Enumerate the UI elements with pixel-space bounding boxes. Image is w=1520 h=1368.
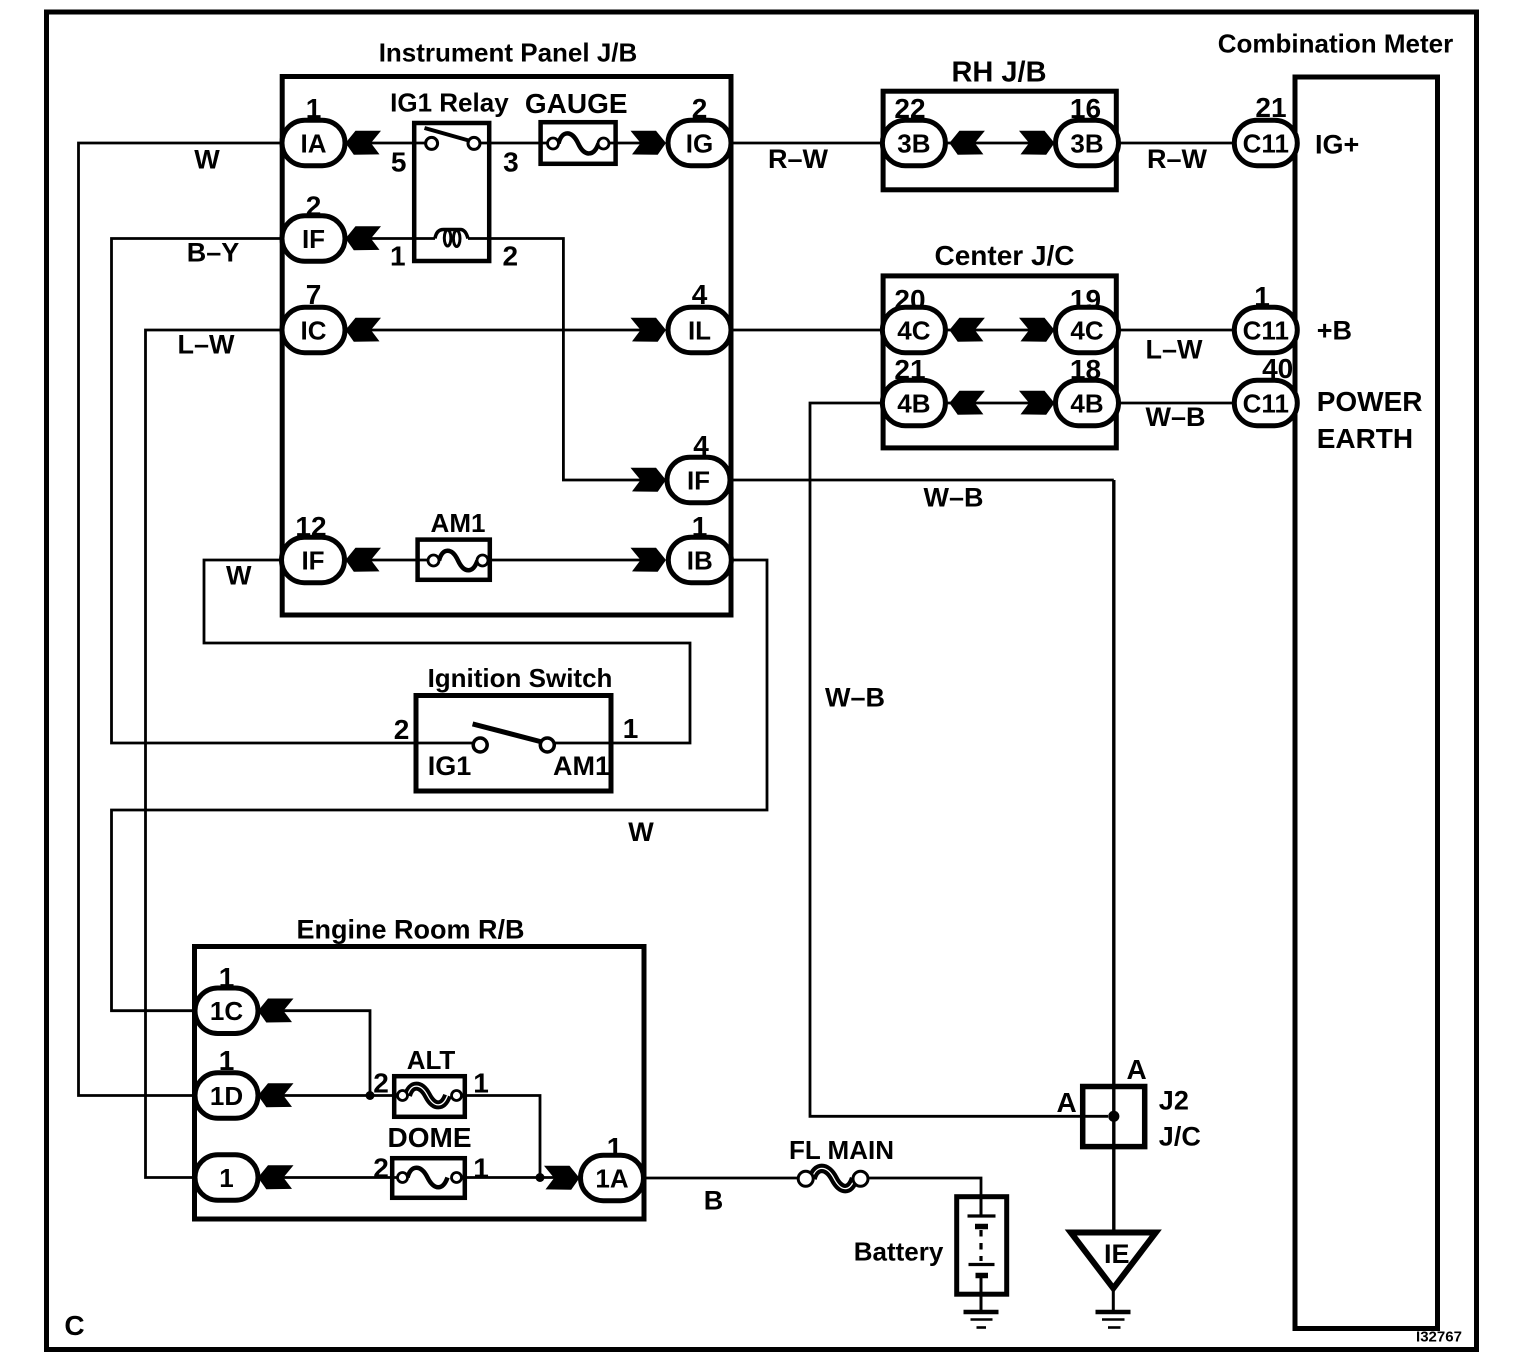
wire W from IF(12) to Ignition Switch terminal 1 AM1 — [204, 560, 690, 743]
junction block box Instrument Panel J/B — [282, 77, 731, 616]
svg-text:W–B: W–B — [1146, 402, 1206, 432]
svg-text:1C: 1C — [210, 996, 243, 1026]
splice arrow at IG — [631, 131, 667, 155]
connector 4B pin 21 — [882, 380, 945, 426]
svg-text:B–Y: B–Y — [187, 238, 240, 268]
svg-text:40: 40 — [1262, 353, 1293, 384]
svg-text:1: 1 — [390, 241, 406, 272]
svg-text:C11: C11 — [1243, 388, 1289, 418]
svg-text:4B: 4B — [1070, 388, 1103, 418]
svg-text:IF: IF — [301, 545, 324, 575]
svg-text:2: 2 — [394, 714, 410, 745]
splice arrow at IB — [631, 548, 667, 572]
relay contact circle pin 3 — [468, 137, 480, 149]
wire relay coil pin 2 to IF(4) — [468, 239, 662, 481]
splice arrow at 1D — [258, 1083, 294, 1107]
wire ALT fuse pin 1 down to 1A node — [461, 1096, 540, 1178]
svg-text:4C: 4C — [897, 315, 930, 345]
svg-text:1: 1 — [692, 511, 708, 542]
svg-text:IC: IC — [301, 315, 327, 345]
ignition switch contact AM1 circle — [540, 738, 554, 752]
svg-text:Engine Room R/B: Engine Room R/B — [297, 915, 525, 945]
wire GAUGE fuse to IG — [608, 142, 663, 145]
svg-text:1: 1 — [1254, 281, 1270, 312]
svg-text:J2: J2 — [1159, 1085, 1189, 1115]
svg-text:FL MAIN: FL MAIN — [789, 1135, 894, 1165]
node A junction inside J2 — [1108, 1111, 1119, 1122]
connector C11 pin 40 — [1234, 380, 1297, 426]
wire W from IA to 1D — [79, 143, 283, 1096]
svg-text:A: A — [1126, 1054, 1146, 1085]
svg-text:IG1 Relay: IG1 Relay — [390, 87, 509, 117]
connector 1C pin 1 — [195, 988, 258, 1034]
wire inside Center J/C between 4B connectors — [944, 402, 1057, 405]
wire B-Y from IF to Ignition Switch terminal 2 — [112, 239, 474, 744]
wire W-B from 4B to J2 junction — [810, 403, 1108, 1116]
relay block box Engine Room R/B — [195, 947, 645, 1220]
svg-text:W–B: W–B — [825, 683, 885, 713]
wire 1D to ALT fuse pin 2 — [284, 1094, 399, 1097]
svg-text:L–W: L–W — [1146, 335, 1204, 365]
svg-text:C: C — [64, 1310, 84, 1341]
splice arrow at IL — [631, 318, 667, 342]
svg-text:C11: C11 — [1243, 128, 1289, 158]
battery cell symbol — [968, 1196, 996, 1294]
svg-text:2: 2 — [306, 191, 322, 222]
svg-text:1: 1 — [473, 1153, 489, 1184]
svg-text:IG1: IG1 — [428, 751, 472, 781]
wire IF to relay coil pin 1 — [371, 237, 435, 240]
svg-text:1: 1 — [607, 1132, 623, 1163]
connector IC pin 7 — [282, 307, 345, 353]
svg-text:2: 2 — [692, 93, 708, 124]
svg-text:W: W — [226, 561, 252, 591]
wire inside Center J/C between 4C connectors — [944, 329, 1057, 332]
svg-text:EARTH: EARTH — [1317, 423, 1413, 454]
svg-text:1D: 1D — [210, 1081, 243, 1111]
svg-text:18: 18 — [1070, 354, 1101, 385]
svg-text:B: B — [704, 1186, 724, 1216]
svg-text:IB: IB — [687, 545, 713, 575]
relay contact lever — [425, 128, 471, 141]
svg-text:IG+: IG+ — [1315, 130, 1359, 160]
svg-text:W–B: W–B — [924, 483, 984, 513]
svg-text:12: 12 — [295, 511, 326, 542]
fuse GAUGE box — [541, 122, 616, 164]
fuse DOME element — [408, 1168, 448, 1188]
wire from FL MAIN to Battery — [867, 1178, 981, 1196]
svg-text:IF: IF — [302, 224, 325, 254]
splice arrow at IF(4) — [631, 468, 667, 492]
battery box — [957, 1197, 1007, 1295]
splice arrow at IC — [346, 318, 382, 342]
wire W-B from IF(4) toward J2 — [731, 479, 1114, 482]
svg-text:3: 3 — [503, 147, 519, 178]
svg-text:L–W: L–W — [178, 330, 236, 360]
ground symbol below IE — [1096, 1312, 1131, 1328]
splice arrow at IA — [346, 131, 382, 155]
connector 3B pin 16 — [1056, 120, 1119, 166]
svg-text:Center J/C: Center J/C — [934, 240, 1074, 271]
svg-text:7: 7 — [306, 279, 322, 310]
splice arrow left of 4B pin 18 — [1019, 391, 1055, 415]
svg-text:J/C: J/C — [1159, 1121, 1201, 1151]
connector IL pin 4 — [668, 307, 731, 353]
relay coil — [435, 230, 468, 239]
svg-text:R–W: R–W — [1147, 144, 1208, 174]
svg-text:C11: C11 — [1243, 315, 1289, 345]
connector 4B pin 18 — [1056, 380, 1119, 426]
ignition switch lever — [473, 724, 542, 742]
component box Combination Meter — [1295, 77, 1438, 1329]
svg-text:16: 16 — [1070, 93, 1101, 124]
wire connector 1 to DOME fuse pin 2 — [284, 1176, 399, 1179]
ground triangle IE — [1071, 1233, 1156, 1289]
wire R-W from IG to 3B — [731, 142, 884, 145]
svg-text:IG: IG — [686, 128, 713, 158]
splice arrow right of 3B pin 22 — [949, 131, 985, 155]
svg-text:POWER: POWER — [1317, 386, 1423, 417]
wire from 1C to junction at ALT fuse — [284, 1011, 371, 1096]
connector IF pin 4 — [667, 457, 730, 503]
svg-text:2: 2 — [373, 1153, 389, 1184]
connector IB pin 1 — [668, 537, 731, 583]
junction block box RH J/B — [883, 91, 1116, 190]
svg-text:IF: IF — [687, 465, 710, 495]
connector 1D pin 1 — [195, 1073, 258, 1119]
svg-text:R–W: R–W — [768, 144, 829, 174]
junction connector box J2 J/C — [1083, 1087, 1145, 1147]
svg-text:4: 4 — [693, 430, 709, 461]
svg-text:4C: 4C — [1070, 315, 1103, 345]
node junction at DOME fuse pin 1 — [536, 1173, 545, 1182]
fuse AM1 element — [439, 551, 478, 571]
fusible link ALT box — [394, 1076, 465, 1117]
splice arrow at connector 1 — [258, 1165, 294, 1189]
connector 4C pin 20 — [882, 307, 945, 353]
fuse DOME box — [392, 1158, 465, 1198]
connector 4C pin 19 — [1056, 307, 1119, 353]
svg-text:IE: IE — [1104, 1239, 1130, 1269]
connector IG pin 2 — [668, 120, 731, 166]
svg-text:W: W — [628, 817, 654, 847]
wire L-W from 4C to C11 pin 1 — [1116, 329, 1235, 332]
connector 1A pin 1 — [581, 1155, 644, 1201]
svg-text:DOME: DOME — [388, 1122, 472, 1153]
svg-text:1: 1 — [306, 93, 322, 124]
svg-text:1: 1 — [219, 1045, 235, 1076]
ground symbol below battery — [964, 1312, 999, 1328]
wire relay contact 3 to GAUGE fuse — [479, 142, 549, 145]
wire W-B from 4B to C11 pin 40 — [1116, 402, 1235, 405]
splice arrow right of 4C pin 20 — [949, 318, 985, 342]
svg-text:A: A — [1056, 1087, 1076, 1118]
svg-text:5: 5 — [391, 147, 407, 178]
wire W from IB to 1C — [112, 560, 768, 1011]
svg-text:3B: 3B — [1070, 128, 1103, 158]
svg-text:I32767: I32767 — [1416, 1328, 1462, 1345]
junction block box Center J/C — [883, 276, 1116, 448]
svg-text:IL: IL — [688, 315, 711, 345]
svg-text:21: 21 — [1255, 92, 1286, 123]
splice arrow at 1C — [258, 999, 294, 1023]
splice arrow left of 4C pin 19 — [1019, 318, 1055, 342]
wire IF(12) to AM1 fuse — [371, 559, 429, 562]
svg-text:IA: IA — [301, 128, 327, 158]
splice arrow at IF(12) — [346, 548, 382, 572]
svg-text:AM1: AM1 — [431, 508, 486, 538]
wire B from 1A to FL MAIN — [644, 1177, 800, 1180]
connector C11 pin 1 — [1234, 307, 1297, 353]
wire IC to IL — [371, 329, 662, 332]
svg-text:20: 20 — [894, 284, 925, 315]
wire L-W from IC to connector 1 — [146, 330, 283, 1178]
wire R-W from 3B to C11 pin 21 — [1116, 142, 1235, 145]
wire inside RH J/B between 3B connectors — [944, 142, 1057, 145]
node junction at ALT fuse pin 2 — [366, 1091, 375, 1100]
svg-text:1: 1 — [219, 1163, 233, 1193]
svg-text:19: 19 — [1070, 284, 1101, 315]
wire IA to IG1 relay contact 5 — [371, 142, 427, 145]
splice arrow left of 3B pin 16 — [1019, 131, 1055, 155]
svg-text:AM1: AM1 — [553, 751, 610, 781]
connector IA pin 1 — [282, 120, 345, 166]
svg-text:4: 4 — [692, 279, 708, 310]
relay contact circle pin 5 — [426, 137, 438, 149]
svg-text:21: 21 — [894, 354, 925, 385]
splice arrow right of 4B pin 21 — [949, 391, 985, 415]
wire AM1 fuse to IB — [481, 559, 663, 562]
svg-text:1: 1 — [473, 1068, 489, 1099]
fuse GAUGE element — [559, 133, 599, 153]
connector IF pin 12 — [282, 537, 345, 583]
svg-text:Combination Meter: Combination Meter — [1218, 28, 1453, 58]
connector 3B pin 22 — [882, 120, 945, 166]
svg-text:1A: 1A — [595, 1163, 628, 1193]
ignition switch contact IG1 circle — [473, 738, 487, 752]
connector C11 pin 21 — [1234, 120, 1297, 166]
svg-text:GAUGE: GAUGE — [525, 88, 628, 119]
svg-text:3B: 3B — [897, 128, 930, 158]
wire DOME fuse pin 1 to 1A — [461, 1176, 576, 1179]
svg-text:W: W — [194, 145, 220, 175]
svg-text:Instrument Panel J/B: Instrument Panel J/B — [379, 37, 638, 67]
svg-text:2: 2 — [373, 1068, 389, 1099]
svg-text:+B: +B — [1317, 316, 1352, 346]
svg-text:RH J/B: RH J/B — [951, 56, 1046, 88]
svg-text:Ignition Switch: Ignition Switch — [428, 663, 613, 693]
fuse AM1 box — [418, 540, 490, 580]
svg-text:1: 1 — [623, 713, 639, 744]
svg-text:22: 22 — [894, 93, 925, 124]
relay box IG1 Relay — [414, 123, 489, 261]
fusible link ALT element — [408, 1086, 448, 1105]
fusible link FL MAIN element — [812, 1168, 855, 1188]
svg-text:ALT: ALT — [407, 1045, 456, 1075]
connector IF pin 2 — [282, 216, 345, 261]
svg-text:2: 2 — [503, 241, 519, 272]
wire W-B vertical through J2 to IE ground — [1112, 480, 1115, 1233]
svg-text:1: 1 — [219, 962, 235, 993]
wire Battery negative to ground — [980, 1294, 983, 1312]
splice arrow at 1A — [544, 1166, 580, 1190]
wire IE triangle to ground — [1112, 1288, 1115, 1312]
connector 1 — [195, 1155, 258, 1201]
splice arrow at IF — [346, 226, 382, 250]
svg-text:Battery: Battery — [854, 1236, 944, 1266]
wire L-W from IL to 4C — [731, 329, 884, 332]
switch box Ignition Switch — [416, 696, 611, 792]
svg-text:4B: 4B — [897, 388, 930, 418]
